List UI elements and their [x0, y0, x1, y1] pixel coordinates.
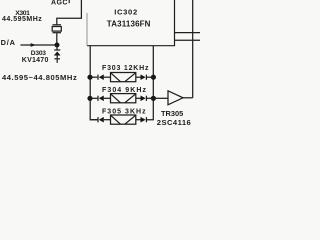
svg-text:F305 3KHz: F305 3KHz: [102, 108, 147, 115]
varactor D303: [54, 50, 61, 63]
node AGC: [51, 0, 70, 6]
wire diode to F305: [104, 119, 111, 121]
wire bus to amplifier input: [153, 97, 168, 99]
wire right filter bus: [146, 46, 153, 120]
wire diode to F304: [104, 97, 111, 99]
wire output riser (right edge): [192, 0, 194, 98]
crystal X301: [52, 25, 61, 43]
ceramic filter F303: [111, 73, 136, 82]
wire diode to F303: [104, 76, 111, 78]
wire F305 to right diode: [136, 119, 141, 121]
transistor TR305 (buffer amp): [168, 91, 183, 105]
wire IC302 lower right pin stub: [175, 39, 201, 41]
node A: junction of crystal, D/A, D303: [55, 43, 60, 48]
wire AGC to crystal: [57, 0, 82, 25]
diode F305 left: [98, 117, 104, 123]
svg-text:TA31136FN: TA31136FN: [107, 20, 151, 29]
wire D/A input: [20, 44, 55, 46]
svg-text:F304 9KHz: F304 9KHz: [102, 87, 147, 94]
svg-text:IC302: IC302: [114, 7, 138, 16]
svg-text:AGC: AGC: [51, 0, 68, 6]
IC IC302: [87, 0, 175, 46]
svg-text:TR305: TR305: [161, 109, 183, 118]
svg-text:44.595MHz: 44.595MHz: [2, 16, 42, 23]
wire bus to F305 left diode: [90, 119, 97, 121]
ceramic filter F304: [111, 94, 136, 103]
diode F303 right: [141, 74, 147, 80]
node right bus / F303: [151, 75, 156, 80]
wire bus to F304 left diode: [90, 97, 97, 99]
node left bus / F304: [87, 96, 92, 101]
diode F305 right: [141, 117, 147, 123]
wire node to varactor: [56, 45, 58, 50]
wire IC302 upper right pin stub: [175, 32, 201, 34]
svg-text:D/A: D/A: [1, 38, 16, 47]
diode F304 left: [98, 96, 104, 102]
arrowhead on D/A wire: [31, 43, 36, 47]
wire F303 to right diode: [136, 76, 141, 78]
svg-text:2SC4116: 2SC4116: [157, 118, 191, 127]
svg-text:KV1470: KV1470: [22, 57, 49, 64]
wire amplifier output: [183, 97, 193, 99]
svg-text:44.595~44.805MHz: 44.595~44.805MHz: [2, 73, 77, 82]
wire bus to F303 left diode: [90, 76, 97, 78]
wire right diode to bus (F304): [146, 97, 153, 99]
svg-text:F303 12KHz: F303 12KHz: [102, 65, 149, 72]
diode F303 left: [98, 74, 104, 80]
wire F304 to right diode: [136, 97, 141, 99]
node right bus / F304: [151, 96, 156, 101]
diode F304 right: [141, 96, 147, 102]
ceramic filter F305: [111, 115, 136, 124]
wire right diode to bus (F303): [146, 76, 153, 78]
node left bus / F303: [87, 75, 92, 80]
wire left filter bus: [90, 46, 97, 120]
